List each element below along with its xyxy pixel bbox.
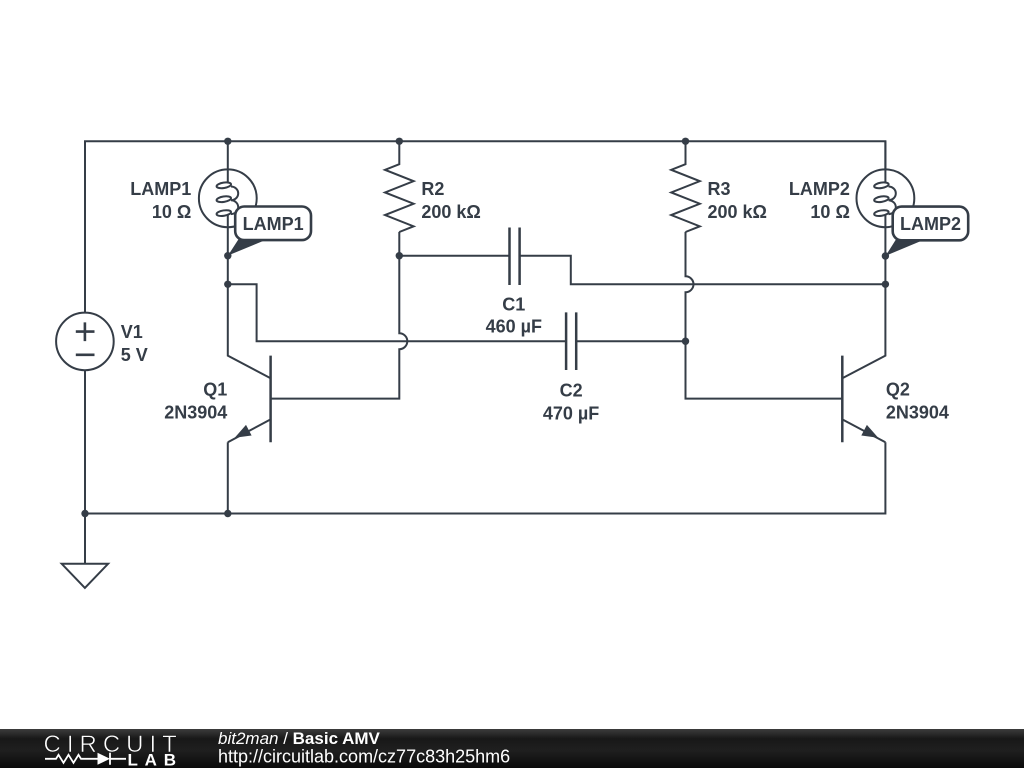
svg-text:LAMP1: LAMP1 <box>243 214 304 234</box>
svg-text:2N3904: 2N3904 <box>164 403 227 423</box>
resistor R3 <box>671 141 700 232</box>
svg-text:LAMP2: LAMP2 <box>900 214 961 234</box>
svg-text:10 Ω: 10 Ω <box>810 202 849 222</box>
lamp LAMP2 bulb circle <box>857 169 915 227</box>
svg-text:460 µF: 460 µF <box>486 317 542 337</box>
callout LAMP1 tail <box>228 239 267 255</box>
svg-text:C1: C1 <box>502 295 525 315</box>
wire R2 node to C1 left plate <box>399 255 509 257</box>
transistor Q1 base bar <box>269 356 272 443</box>
resistor R2 <box>385 141 414 232</box>
wire bottom rail with Q2 emitter drop <box>85 442 885 513</box>
wire C2 right plate to R3 node <box>576 340 685 342</box>
CircuitLab logo diode triangle <box>98 753 111 765</box>
junction top rail at R2 <box>396 138 403 145</box>
wire top rail with left rail down to V1 and right drop to LAMP2 <box>85 141 885 312</box>
callout LAMP1 box <box>235 207 311 241</box>
CircuitLab logo resistor-diode glyph <box>45 753 126 765</box>
svg-text:470 µF: 470 µF <box>543 404 599 424</box>
Q2 emitter arrow <box>861 425 878 438</box>
junction R3-C2 node <box>682 338 689 345</box>
svg-text:Q1: Q1 <box>203 380 227 400</box>
callout LAMP2 box <box>893 207 969 241</box>
V1 minus sign <box>76 353 95 356</box>
svg-text:200 kΩ: 200 kΩ <box>421 202 480 222</box>
Q1 emitter arrow <box>235 425 252 438</box>
lamp LAMP1 bulb circle <box>199 169 257 227</box>
wire V1 bottom to ground rail <box>84 370 86 564</box>
svg-text:10 Ω: 10 Ω <box>152 202 191 222</box>
transistor Q2 emitter diagonal <box>842 419 885 442</box>
junction Q1 collector node <box>224 281 231 288</box>
svg-text:LAMP2: LAMP2 <box>789 179 850 199</box>
svg-text:200 kΩ: 200 kΩ <box>708 202 767 222</box>
wire C1 right plate to Q2 collector node <box>520 256 886 285</box>
transistor Q2 base bar <box>841 356 844 443</box>
wire R3 bottom to Q2 base (with hop over C1 wire) <box>686 232 843 399</box>
junction LAMP1 bottom node <box>224 252 231 259</box>
callout LAMP2 tail <box>886 239 925 255</box>
wire LAMP1 branch: top rail through lamp down to Q1 collector <box>228 141 271 378</box>
lamp LAMP2 filament coil <box>874 181 896 216</box>
junction R2 bottom node <box>396 252 403 259</box>
junction bottom rail at Q1 emitter <box>224 510 231 517</box>
V1 plus sign <box>76 322 95 341</box>
capacitor C2 plates <box>566 312 576 370</box>
junction top rail at R3 <box>682 138 689 145</box>
ground symbol <box>62 564 108 588</box>
svg-text:R2: R2 <box>421 179 444 199</box>
voltage source V1 circle <box>56 313 114 371</box>
wire LAMP2 branch: top rail through lamp down to Q2 collector <box>842 141 885 378</box>
lamp LAMP1 filament coil <box>216 181 238 216</box>
junction bottom rail at ground <box>81 510 88 517</box>
svg-text:2N3904: 2N3904 <box>886 403 949 423</box>
junction LAMP2 bottom node <box>882 252 889 259</box>
svg-text:LAMP1: LAMP1 <box>130 179 191 199</box>
svg-text:V1: V1 <box>121 322 143 342</box>
junction top rail at LAMP1 <box>224 138 231 145</box>
svg-text:C2: C2 <box>560 381 583 401</box>
wire Q1 emitter to bottom rail <box>227 442 229 513</box>
footer bar <box>0 729 1024 768</box>
transistor Q1 emitter diagonal <box>228 419 271 442</box>
svg-text:Q2: Q2 <box>886 380 910 400</box>
svg-text:LAB: LAB <box>128 750 183 768</box>
junction Q2 collector node <box>882 281 889 288</box>
capacitor C1 plates <box>510 228 520 286</box>
svg-text:R3: R3 <box>708 179 731 199</box>
svg-text:5 V: 5 V <box>121 345 148 365</box>
wire R2 bottom to Q1 base (with hop over C2 wire) <box>271 232 408 399</box>
wire Q1 collector node to C2 left plate <box>228 284 566 341</box>
svg-text:http://circuitlab.com/cz77c83h: http://circuitlab.com/cz77c83h25hm6 <box>218 746 510 766</box>
